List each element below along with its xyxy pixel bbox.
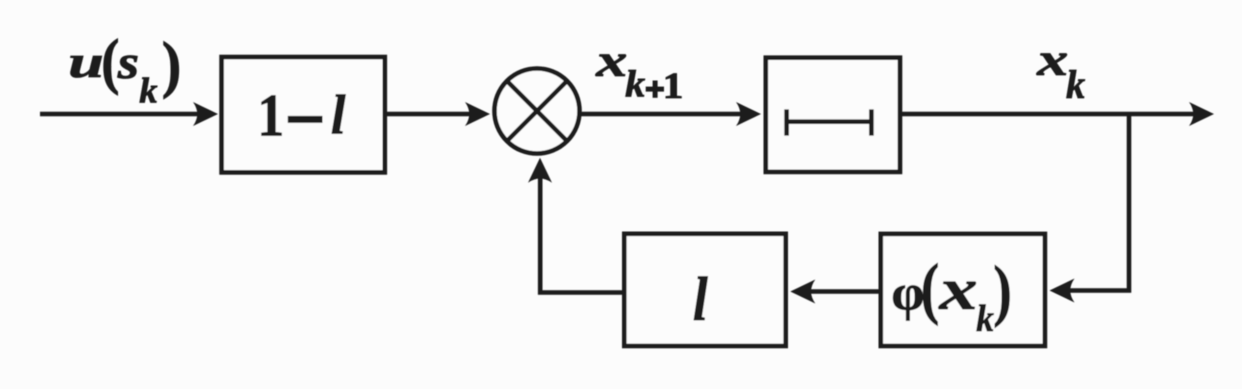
plus sign of subscript k+1 [646,87,664,92]
block delay rectangle [766,58,900,172]
svg-text:k: k [976,297,994,339]
wire multiplier to delay block [581,112,744,117]
svg-text:x: x [938,256,977,322]
arrowhead output end [1189,102,1214,126]
block text phi(x_k) [891,250,1012,340]
multiplier X chords [506,80,568,142]
svg-text:s: s [117,36,139,89]
block text 1-l [257,83,346,149]
svg-text:k: k [139,71,157,111]
wire feedback: junction down and left into phi block [1068,114,1129,291]
minus sign [288,116,323,123]
svg-text:1: 1 [257,83,284,149]
label u(s_k) [68,26,181,111]
svg-text:l: l [693,264,709,333]
svg-text:): ) [162,31,182,100]
wire delay block to output [902,112,1196,117]
svg-text:(: ( [921,250,940,327]
arrowhead into delay block [736,102,761,126]
arrowhead into block 1-l [193,102,218,126]
label x_k output [1036,33,1085,107]
delay symbol I-beam [787,109,872,135]
svg-text:φ: φ [891,264,924,321]
arrowhead into multiplier bottom (up pointing) [528,158,552,183]
svg-text:): ) [993,252,1012,329]
arrowhead into multiplier left [465,102,490,126]
wire input [40,112,200,117]
arrowhead into l block (left pointing) [790,280,815,304]
block 1-l rectangle [222,57,385,172]
multiplier circle [495,69,580,154]
wire l block left then up to multiplier [540,176,624,295]
wire phi block to l block [808,289,879,294]
label x_k+1 [595,34,683,106]
svg-text:l: l [331,83,347,145]
svg-text:1: 1 [663,65,684,106]
block phi rectangle [881,234,1045,346]
svg-text:x: x [1036,33,1068,85]
svg-text:k: k [1066,63,1086,107]
svg-text:u: u [68,37,103,87]
wire block 1-l to multiplier [387,112,472,117]
svg-text:x: x [595,34,627,86]
svg-text:k: k [625,63,646,105]
block l rectangle [624,234,785,346]
arrowhead into phi block (left pointing) [1050,279,1075,303]
